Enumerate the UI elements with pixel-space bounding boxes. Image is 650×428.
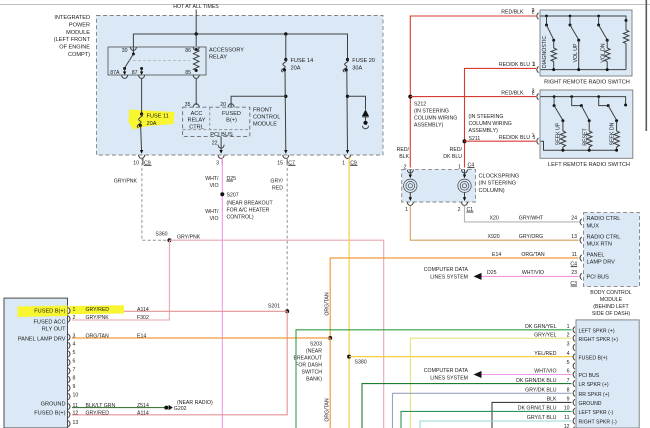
wire WHT/VIO from pin 3 down [221, 158, 223, 428]
svg-text:CLOCKSPRING: CLOCKSPRING [479, 174, 520, 180]
svg-text:ASSEMBLY): ASSEMBLY) [469, 128, 499, 134]
svg-text:RED/BLK: RED/BLK [501, 90, 524, 96]
svg-text:COMPUTER DATA: COMPUTER DATA [424, 267, 469, 273]
svg-text:DK GRN/LT BLU: DK GRN/LT BLU [518, 406, 557, 412]
svg-text:WHT/VIO: WHT/VIO [534, 369, 556, 375]
svg-text:85: 85 [185, 70, 191, 76]
svg-text:RIGHT SPKR (-): RIGHT SPKR (-) [579, 420, 618, 426]
svg-text:WHT/VIO: WHT/VIO [522, 270, 544, 276]
svg-text:(IN STEERING: (IN STEERING [469, 114, 504, 120]
wire fuse20 branch [347, 34, 349, 59]
svg-text:6: 6 [567, 369, 570, 375]
svg-text:F302: F302 [137, 315, 149, 321]
right switch pin 1 [537, 66, 539, 72]
resistor R-seekdn [614, 131, 620, 147]
svg-text:CONTROL): CONTROL) [227, 215, 254, 221]
svg-text:1: 1 [73, 307, 76, 313]
svg-text:23: 23 [571, 270, 577, 276]
wire RED/DK BLU left switch branch [465, 140, 537, 142]
left switch pin 2 [537, 93, 539, 99]
svg-text:MODULE: MODULE [66, 30, 90, 36]
svg-text:12: 12 [73, 411, 79, 417]
svg-text:FUSED B(+): FUSED B(+) [34, 410, 65, 416]
svg-text:20: 20 [220, 102, 226, 108]
junction fuse14/FCM20 [284, 95, 287, 98]
svg-text:13: 13 [571, 234, 577, 240]
svg-text:RADIO CTRL: RADIO CTRL [587, 216, 621, 222]
resistor R-end [623, 30, 629, 44]
svg-text:SIDE OF DASH): SIDE OF DASH) [592, 311, 631, 317]
svg-text:ACCESSORY: ACCESSORY [209, 48, 244, 54]
svg-text:LEFT REMOTE RADIO SWITCH: LEFT REMOTE RADIO SWITCH [548, 162, 630, 168]
svg-text:PCI BUS: PCI BUS [579, 373, 600, 379]
diode D1 [362, 110, 369, 117]
svg-text:RESET: RESET [583, 128, 589, 146]
svg-text:INTEGRATED: INTEGRATED [54, 15, 90, 21]
svg-text:SEEK DN: SEEK DN [609, 122, 615, 145]
left switch seek up branch [553, 95, 556, 98]
wire FCM22 to pin 3 [220, 137, 222, 152]
FCM divider dashes [209, 107, 211, 129]
svg-text:2: 2 [458, 207, 461, 213]
svg-text:86: 86 [185, 48, 191, 54]
svg-text:20A: 20A [291, 65, 301, 71]
wire ORG/TAN S203 down to bottom [329, 338, 331, 428]
radio wire labels [86, 307, 149, 313]
svg-text:1: 1 [405, 207, 408, 213]
wire RED/DK BLU label above clockspring [443, 147, 462, 171]
svg-text:3: 3 [216, 160, 219, 166]
svg-text:RELAY: RELAY [188, 118, 206, 124]
svg-text:RR SPKR (+): RR SPKR (+) [579, 392, 610, 398]
wire RED/DK BLU right switch feed [465, 68, 537, 167]
svg-text:1: 1 [532, 62, 535, 68]
relay contact 87A arrow [124, 69, 126, 73]
right switch vol dn branch [597, 15, 600, 18]
svg-text:(BEHIND LEFT: (BEHIND LEFT [593, 304, 629, 310]
svg-text:GRY/RED: GRY/RED [86, 307, 110, 313]
relay coil link dashed [128, 60, 190, 62]
clockspring pin 2 top arc [407, 170, 413, 173]
left switch reset branch [570, 95, 573, 98]
row 8 rr spkr + [393, 393, 572, 428]
svg-text:G202: G202 [174, 406, 187, 412]
svg-text:22: 22 [212, 140, 218, 146]
svg-text:4: 4 [567, 351, 570, 357]
svg-text:FRONT: FRONT [253, 108, 273, 114]
node S203 [328, 336, 332, 340]
svg-text:GRY/ORG: GRY/ORG [519, 234, 543, 240]
row 6 pci bus stub [477, 374, 572, 376]
IPM pin 10 C9 [139, 155, 145, 158]
fuse F20 [346, 58, 349, 61]
svg-text:COMPT): COMPT) [68, 52, 90, 58]
svg-text:FUSED: FUSED [222, 111, 241, 117]
svg-text:(LEFT FRONT: (LEFT FRONT [54, 37, 91, 43]
resistor R-voldn [605, 48, 611, 62]
svg-text:GRY/WHT: GRY/WHT [519, 216, 544, 222]
relay pin 85 [193, 75, 199, 78]
BCM pin brackets [580, 219, 582, 225]
row 11 right spkr - [420, 421, 572, 428]
wire GRY/RED S201 to radio pin 1 [72, 310, 287, 312]
front control module label [253, 108, 280, 128]
svg-text:S201: S201 [268, 304, 280, 310]
junction fuse14 [284, 32, 287, 35]
svg-text:5: 5 [73, 350, 76, 356]
radio pin numbers [73, 307, 79, 426]
svg-text:CTRL: CTRL [189, 125, 204, 131]
svg-text:FUSED B(+): FUSED B(+) [34, 309, 65, 315]
svg-text:S212: S212 [414, 102, 426, 108]
wire X920 GRY/ORG clockspring pin1 to BCM 13 [410, 206, 578, 241]
front control module box [183, 107, 250, 136]
relay switch arm 30-87A [132, 48, 134, 54]
svg-text:2: 2 [73, 315, 76, 321]
svg-text:1: 1 [567, 324, 570, 330]
svg-text:X20: X20 [490, 216, 499, 222]
svg-text:COLUMN): COLUMN) [479, 188, 505, 194]
svg-text:PCI BUS: PCI BUS [210, 132, 233, 138]
accessory relay label [209, 48, 244, 61]
svg-text:VOL UP: VOL UP [573, 43, 579, 62]
svg-text:ORG/TAN: ORG/TAN [324, 292, 330, 316]
svg-text:3: 3 [567, 342, 570, 348]
svg-text:6: 6 [73, 359, 76, 365]
svg-text:MODULE: MODULE [600, 297, 623, 303]
svg-text:7: 7 [73, 367, 76, 373]
wire D25 WHT/VIO stub to BCM 23 [477, 275, 579, 277]
svg-text:(NEAR BREAKOUT: (NEAR BREAKOUT [227, 201, 274, 207]
svg-text:30: 30 [122, 48, 128, 54]
svg-text:87A: 87A [110, 70, 120, 76]
left switch seek dn branch [597, 95, 600, 98]
svg-text:11: 11 [572, 252, 577, 258]
svg-text:FUSE 20: FUSE 20 [352, 58, 375, 64]
wire RED/BLK left switch branch [410, 96, 536, 98]
svg-text:1: 1 [342, 160, 345, 166]
row 7 lr spkr + [362, 384, 572, 428]
FCM pin 35 [193, 104, 199, 107]
clockspring coil left [404, 179, 417, 192]
wire fuse20 to pin 1 [346, 70, 349, 152]
FCM acc relay ctrl label [188, 111, 206, 131]
svg-text:LR SPKR (+): LR SPKR (+) [579, 382, 609, 388]
svg-text:HOT AT ALL TIMES: HOT AT ALL TIMES [173, 4, 219, 10]
svg-text:ASSEMBLY): ASSEMBLY) [414, 123, 444, 129]
highlight over 1 GRY/RED A114 [70, 305, 125, 314]
wire GRY/RED dashed from pin 15 [286, 158, 288, 310]
svg-text:24: 24 [571, 216, 577, 222]
svg-text:FOR DASH: FOR DASH [295, 362, 322, 368]
svg-text:FOR A/C HEATER: FOR A/C HEATER [227, 208, 270, 214]
wire 86 to bus [195, 34, 197, 46]
wire BLK/LT GRN to ground [72, 407, 165, 409]
clockspring pin 1 top arc [462, 170, 468, 173]
svg-text:WHT/: WHT/ [205, 209, 219, 215]
right switch diagnostic branch [545, 15, 548, 18]
clockspring pin 1 bottom [407, 202, 413, 205]
svg-text:RED/BLK: RED/BLK [501, 9, 524, 15]
left switch bottom bus [541, 141, 617, 150]
highlight over FUSED B(+) pin1 label [18, 306, 68, 318]
right switch vol up branch [569, 15, 572, 18]
svg-text:DIAGNOSTIC: DIAGNOSTIC [542, 36, 548, 69]
svg-text:CONTROL: CONTROL [253, 115, 280, 121]
wire GRY/PNK from S360 right, down to bottom [169, 240, 383, 428]
relay pin 87A [122, 75, 128, 78]
svg-text:RED/DK BLU: RED/DK BLU [499, 62, 530, 68]
relay contact 87 arrow [140, 67, 143, 70]
svg-text:GRY/: GRY/ [270, 178, 283, 184]
node S201 [285, 309, 289, 313]
row 4 fused b+ [534, 351, 607, 361]
svg-text:RIGHT SPKR (+): RIGHT SPKR (+) [579, 337, 619, 343]
svg-text:ORG/TAN: ORG/TAN [324, 398, 330, 422]
wire YEL/RED from pin 1 C9 down [348, 158, 350, 428]
right switch top bus [541, 16, 627, 20]
svg-text:9: 9 [567, 397, 570, 403]
svg-text:PCI BUS: PCI BUS [587, 275, 610, 281]
wire ORG/TAN radio pin3 to S203 [72, 337, 330, 339]
right switch bottom bus [541, 69, 627, 71]
radio pin brackets [68, 308, 70, 427]
accessory relay box [108, 47, 206, 75]
IPM pin 15 C7 [283, 155, 289, 158]
svg-text:10: 10 [133, 160, 139, 166]
svg-text:2: 2 [532, 8, 535, 14]
svg-text:7: 7 [567, 378, 570, 384]
wire fuse14 branch [285, 34, 287, 59]
fuse F14 [284, 58, 287, 61]
svg-text:RED/DK BLU: RED/DK BLU [499, 135, 530, 141]
svg-text:MUX RTN: MUX RTN [587, 242, 612, 248]
wire RED/BLK right switch feed [410, 16, 536, 168]
svg-text:PANEL: PANEL [587, 252, 605, 258]
svg-text:8: 8 [567, 388, 570, 394]
wire hot feed [195, 10, 197, 35]
resistor R-seekup [560, 131, 566, 147]
svg-text:GROUND: GROUND [579, 401, 602, 407]
svg-text:10: 10 [73, 393, 79, 399]
svg-text:3: 3 [73, 333, 76, 339]
svg-text:10: 10 [564, 406, 570, 412]
wire 87 to fuse 11 [141, 78, 143, 114]
svg-text:ORG/TAN: ORG/TAN [86, 333, 110, 339]
FCM pin 20 [228, 104, 234, 107]
svg-text:COLUMN WIRING: COLUMN WIRING [414, 116, 457, 122]
svg-text:VOL DN: VOL DN [600, 43, 606, 62]
wire YEL/RED S380 to row4 [349, 356, 573, 358]
svg-text:BLK: BLK [547, 397, 557, 403]
integrated power module label [54, 15, 91, 58]
radio pin labels [18, 309, 66, 417]
svg-text:POWER: POWER [69, 22, 90, 28]
clockspring box [402, 170, 476, 202]
svg-text:2: 2 [567, 332, 570, 338]
svg-text:5: 5 [567, 360, 570, 366]
wire RED/BLK label above clockspring [397, 147, 410, 171]
svg-text:8: 8 [73, 376, 76, 382]
wire GRY/PNK from S360 down to radio pin 2 [72, 240, 169, 320]
svg-text:LEFT SPKR (+): LEFT SPKR (+) [579, 328, 615, 334]
svg-text:PANEL LAMP DRV: PANEL LAMP DRV [18, 336, 66, 342]
svg-text:GRY/DK BLU: GRY/DK BLU [525, 388, 557, 394]
ground G202 [164, 406, 168, 410]
svg-text:GRY/PNK: GRY/PNK [86, 315, 110, 321]
svg-text:VIO: VIO [210, 183, 219, 189]
svg-text:MUX: MUX [587, 223, 600, 229]
svg-text:20A: 20A [147, 121, 157, 127]
svg-text:9: 9 [73, 384, 76, 390]
svg-text:FUSED B(+): FUSED B(+) [579, 356, 608, 362]
BCM caption [590, 290, 632, 317]
svg-text:FUSE 14: FUSE 14 [291, 58, 314, 64]
wire GRY/PNK dashed from pin 10 [142, 158, 167, 241]
radio C2 box [576, 320, 639, 428]
svg-text:LAMP DRV: LAMP DRV [587, 260, 616, 266]
right remote radio switch box [540, 10, 632, 76]
svg-text:(IN STEERING: (IN STEERING [479, 181, 517, 187]
left switch top bus [541, 97, 626, 105]
svg-text:BLK: BLK [399, 154, 409, 160]
svg-text:87: 87 [132, 70, 138, 76]
relay pin 86 [193, 47, 199, 50]
right switch pin 2 [537, 13, 539, 19]
svg-text:BREAKOUT: BREAKOUT [293, 355, 322, 361]
svg-text:A114: A114 [137, 307, 149, 313]
svg-text:(NEAR RADIO): (NEAR RADIO) [177, 400, 213, 406]
node S211 [463, 139, 467, 143]
svg-text:11: 11 [564, 415, 569, 421]
svg-text:RLY OUT: RLY OUT [42, 327, 66, 333]
body control module box [584, 213, 640, 287]
radio connector C1 box [4, 298, 68, 428]
row 2 right spkr + [411, 338, 572, 428]
svg-text:B(+): B(+) [226, 118, 237, 124]
BCM row labels [587, 216, 621, 229]
wire B+ bus [133, 34, 347, 52]
row 5 pin [567, 360, 570, 366]
svg-text:(IN STEERING: (IN STEERING [414, 109, 449, 115]
wire FCM20 to fuse14 junction [231, 96, 286, 107]
svg-text:RELAY: RELAY [209, 55, 227, 61]
clockspring pin 2 bottom [462, 202, 468, 205]
svg-text:RADIO CTRL: RADIO CTRL [587, 234, 621, 240]
wire 85 to FCM pin 35 [195, 78, 197, 105]
wire GRY/RED S201 down to pin 12 row [72, 311, 287, 415]
node S360 [167, 238, 171, 242]
node S207 [220, 192, 224, 196]
window edge bar right [645, 0, 647, 131]
svg-text:ORG/TAN: ORG/TAN [521, 252, 545, 258]
junction hot/86 [195, 32, 198, 35]
svg-text:S207: S207 [227, 193, 239, 199]
row 1 left spkr + [296, 330, 572, 428]
diode branch wire [348, 96, 366, 109]
svg-text:FUSED ACC: FUSED ACC [33, 319, 65, 325]
svg-text:VIO: VIO [210, 216, 219, 222]
svg-text:RED/: RED/ [397, 147, 410, 153]
svg-text:LINES SYSTEM: LINES SYSTEM [430, 376, 468, 382]
node S380 [347, 355, 351, 359]
svg-text:15: 15 [277, 160, 283, 166]
row 12 pin [564, 424, 570, 428]
relay pin 30 [130, 47, 136, 50]
svg-text:A114: A114 [137, 411, 149, 417]
row 10 left spkr - [401, 411, 572, 428]
wire fuse14 to pin 15 [284, 70, 287, 152]
svg-text:X920: X920 [488, 234, 500, 240]
row 3 pin [567, 342, 570, 348]
wire X20 GRY/WHT clockspring pin2 to BCM 24 [465, 206, 579, 222]
row 9 ground [492, 402, 572, 428]
node S212 [408, 95, 412, 99]
svg-text:COMPUTER DATA: COMPUTER DATA [424, 368, 469, 374]
svg-text:GRY/LT BLU: GRY/LT BLU [527, 415, 557, 421]
clockspring label [479, 174, 520, 194]
svg-text:E14: E14 [137, 333, 146, 339]
page top rule [0, 4, 650, 6]
svg-text:DK GRN/DK BLU: DK GRN/DK BLU [516, 378, 557, 384]
svg-text:BODY CONTROL: BODY CONTROL [590, 290, 632, 296]
svg-text:GRY/YEL: GRY/YEL [534, 332, 557, 338]
FCM fused b+ label [222, 111, 241, 124]
relay pin 87 [139, 75, 145, 78]
svg-text:RED: RED [272, 186, 283, 192]
relay coil [193, 50, 199, 71]
svg-text:GRY/PNK: GRY/PNK [177, 235, 201, 241]
junction fuse20/diode [346, 95, 349, 98]
svg-text:DK GRN/YEL: DK GRN/YEL [525, 324, 557, 330]
integrated power module box [97, 16, 384, 156]
svg-text:GRY/PNK: GRY/PNK [114, 178, 138, 184]
svg-text:YEL/RED: YEL/RED [534, 351, 556, 357]
highlight over FUSE 11 [129, 110, 175, 130]
wire E14 ORG/TAN to BCM 11 [330, 258, 578, 338]
clockspring coil right [458, 179, 471, 192]
svg-text:ACC: ACC [191, 111, 203, 117]
fuse F11 [140, 112, 143, 115]
svg-text:RED/: RED/ [450, 147, 463, 153]
svg-text:12: 12 [564, 424, 570, 428]
IPM pin 3 [218, 155, 224, 158]
svg-text:GROUND: GROUND [41, 402, 66, 408]
svg-text:4: 4 [73, 342, 76, 348]
svg-text:SWITCH: SWITCH [302, 369, 323, 375]
svg-text:GRY/RED: GRY/RED [86, 411, 110, 417]
svg-text:LEFT SPKR (-): LEFT SPKR (-) [579, 410, 614, 416]
wire fuse11 to pin 10 [141, 126, 142, 152]
svg-text:S360: S360 [155, 232, 167, 238]
resistor R-diag [551, 48, 557, 62]
IPM pin 1 C9 [345, 155, 351, 158]
svg-text:S380: S380 [355, 359, 367, 365]
svg-text:(NEAR: (NEAR [306, 348, 322, 354]
svg-text:E14: E14 [492, 252, 501, 258]
svg-text:2: 2 [532, 89, 535, 95]
svg-text:35: 35 [185, 102, 191, 108]
svg-text:COLUMN WIRING: COLUMN WIRING [469, 121, 512, 127]
svg-text:SEEK UP: SEEK UP [556, 122, 562, 145]
resistor R-reset [587, 131, 593, 147]
left remote radio switch box [540, 90, 633, 158]
svg-text:D25: D25 [487, 270, 497, 276]
svg-text:LINES SYSTEM: LINES SYSTEM [430, 274, 468, 280]
svg-text:13: 13 [73, 420, 79, 426]
svg-text:30A: 30A [352, 65, 362, 71]
svg-text:BANK): BANK) [306, 376, 322, 382]
